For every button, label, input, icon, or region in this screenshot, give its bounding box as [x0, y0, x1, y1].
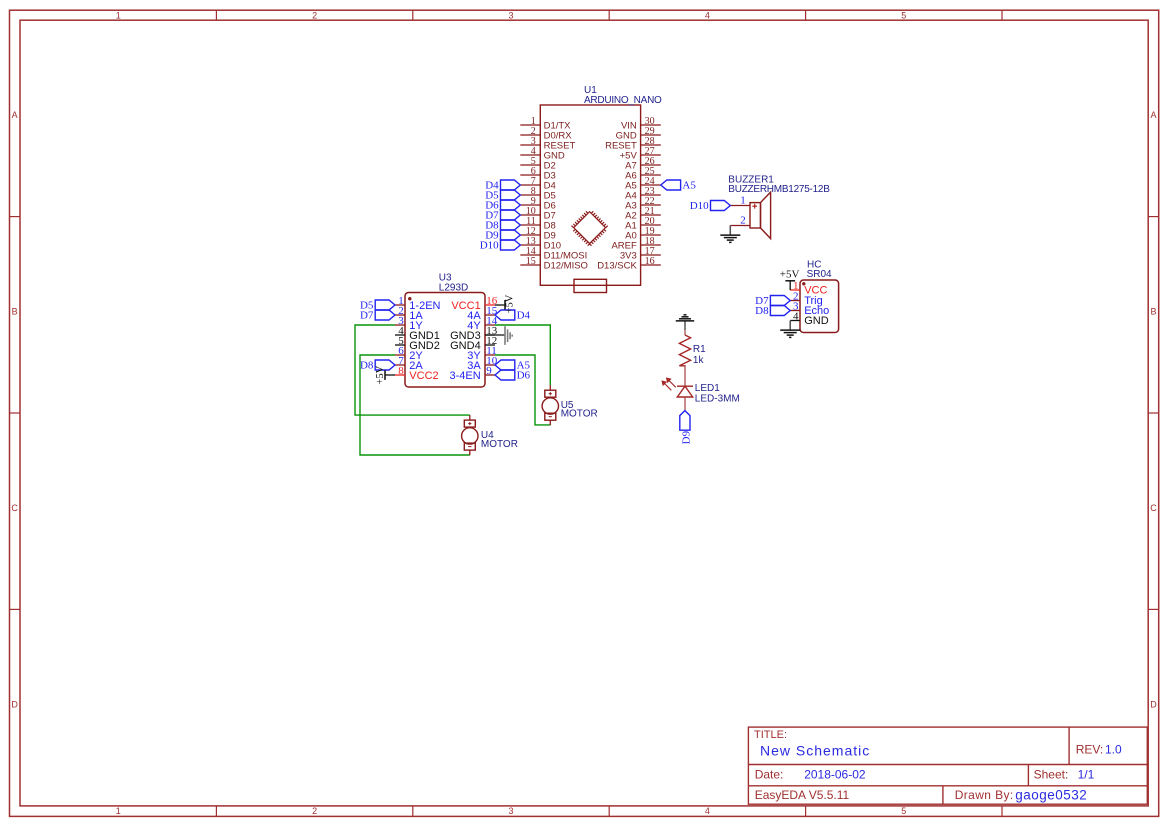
net flag A5 (U1 pin 24) — [661, 180, 681, 190]
U3 pin 6 2Y — [395, 354, 405, 356]
U1 pin 22 A3 — [641, 204, 661, 206]
svg-text:+5V: +5V — [375, 365, 386, 384]
LED1 emission arrows — [662, 378, 676, 390]
wire LED1 to D9 flag — [684, 397, 686, 411]
net flag D4 (U3 pin 15) — [495, 310, 515, 320]
svg-text:D10: D10 — [480, 240, 499, 252]
U1 pin 10 D7 — [520, 214, 540, 216]
motor U4 — [469, 415, 471, 420]
HC pin 3 Echo — [790, 310, 800, 312]
net flag D5 (U3 pin 1) — [375, 300, 395, 310]
svg-text:Drawn By:: Drawn By: — [955, 788, 1014, 802]
svg-text:D4: D4 — [517, 310, 531, 322]
U1 pin 23 A4 — [641, 194, 661, 196]
U1 pin 15 D12/MISO — [520, 264, 540, 266]
U3 pin 10 3A — [485, 364, 495, 366]
U1 pin 18 AREF — [641, 244, 661, 246]
net flag D4 (U1 pin 7) — [501, 180, 521, 190]
U1 pin 13 D10 — [520, 244, 540, 246]
svg-text:2: 2 — [312, 806, 317, 816]
svg-text:D: D — [11, 700, 18, 710]
net flag D10 (buzzer) — [711, 201, 731, 211]
wire U3 pin11 3Y to motor U5 - — [495, 355, 550, 425]
U1 pin 27 +5V — [641, 154, 661, 156]
U1 pin 7 D4 — [520, 184, 540, 186]
svg-text:EasyEDA V5.5.11: EasyEDA V5.5.11 — [755, 788, 850, 802]
U3 pin 7 2A — [395, 364, 405, 366]
U3 pin 16 VCC1 — [485, 304, 495, 306]
svg-text:D10: D10 — [690, 200, 709, 212]
net flag D7 (U3 pin 2) — [375, 310, 395, 320]
svg-text:2: 2 — [740, 215, 746, 227]
ground (buzzer) — [729, 226, 731, 236]
U1 pin 2 D0/RX — [520, 134, 540, 136]
U3 pin 11 3Y — [485, 354, 495, 356]
svg-text:A: A — [12, 110, 18, 120]
svg-text:gaoge0532: gaoge0532 — [1015, 787, 1087, 802]
svg-text:D: D — [1150, 700, 1157, 710]
wire ground to R1 — [684, 330, 686, 335]
HC pin 2 Trig — [790, 300, 800, 302]
U1 pin 11 D8 — [520, 224, 540, 226]
U1 pin 16 D13/SCK — [641, 264, 661, 266]
U1 pin 19 A0 — [641, 234, 661, 236]
U3 pin 15 4A — [485, 314, 495, 316]
U1 pin 6 D3 — [520, 174, 540, 176]
U1 pin 1 D1/TX — [520, 124, 540, 126]
buzzer plus mark — [752, 205, 757, 207]
net flag D9 (LED) — [680, 411, 690, 431]
ruler column ticks top — [215, 10, 217, 20]
svg-text:3-4EN: 3-4EN — [450, 370, 481, 382]
ruler row ticks left — [10, 216, 21, 218]
svg-text:2018-06-02: 2018-06-02 — [804, 768, 866, 782]
svg-text:D8: D8 — [360, 360, 374, 372]
svg-text:1: 1 — [740, 195, 746, 207]
resistor R1 — [679, 335, 690, 366]
ruler column ticks bottom — [215, 806, 217, 817]
svg-text:1.0: 1.0 — [1105, 743, 1122, 757]
svg-text:+5V: +5V — [780, 269, 800, 281]
net flag D5 (U1 pin 8) — [501, 190, 521, 200]
IC U1 ARDUINO_NANO body — [540, 105, 640, 285]
svg-text:1: 1 — [116, 10, 121, 20]
buzzer pin 2 — [730, 225, 750, 227]
U1 pin 29 GND — [641, 134, 661, 136]
svg-text:R1: R1 — [693, 344, 706, 355]
net flag D8 (U1 pin 11) — [501, 220, 521, 230]
net flag D10 (U1 pin 13) — [501, 240, 521, 250]
U3 pin 4 GND1 — [395, 334, 405, 336]
U1 pin 4 GND — [520, 154, 540, 156]
svg-text:B: B — [12, 307, 18, 317]
HC pin 4 GND — [790, 320, 800, 322]
net flag D7 (HC pin 2) — [770, 296, 790, 306]
svg-text:BUZZERHMB1275-12B: BUZZERHMB1275-12B — [728, 184, 830, 195]
U1 pin 17 3V3 — [641, 254, 661, 256]
svg-text:C: C — [1150, 503, 1157, 513]
svg-text:D8: D8 — [755, 305, 769, 317]
svg-text:B: B — [1150, 307, 1156, 317]
svg-text:TITLE:: TITLE: — [754, 729, 787, 741]
svg-text:1: 1 — [116, 806, 121, 816]
U1 pin 5 D2 — [520, 164, 540, 166]
svg-text:D6: D6 — [517, 370, 531, 382]
net flag D8 (HC pin 3) — [770, 306, 790, 316]
svg-text:LED-3MM: LED-3MM — [695, 394, 740, 405]
svg-text:15: 15 — [526, 256, 536, 267]
U1 pin 8 D5 — [520, 194, 540, 196]
svg-text:MOTOR: MOTOR — [561, 408, 598, 419]
svg-text:+5V: +5V — [504, 294, 515, 313]
sideways ground (U3 GND3/GND4) — [504, 326, 506, 345]
U3 pin 2 1A — [395, 314, 405, 316]
svg-text:Sheet:: Sheet: — [1034, 768, 1069, 782]
U1 pin 24 A5 — [641, 184, 661, 186]
svg-text:A: A — [1150, 110, 1156, 120]
svg-text:2: 2 — [312, 10, 317, 20]
svg-text:VCC2: VCC2 — [409, 370, 438, 382]
svg-text:REV:: REV: — [1076, 743, 1104, 757]
wire HC pin4 to ground — [789, 321, 791, 331]
svg-text:LED1: LED1 — [695, 383, 720, 394]
svg-text:1k: 1k — [693, 355, 705, 366]
svg-text:5: 5 — [901, 10, 906, 20]
svg-text:GND: GND — [804, 315, 829, 327]
buzzer BUZZER1 body — [750, 203, 761, 228]
U1 pin 25 A6 — [641, 174, 661, 176]
ruler row ticks right — [1148, 216, 1159, 218]
HC pin 1 VCC — [790, 289, 800, 291]
U3 pin 12 GND4 — [485, 344, 495, 346]
svg-text:Date:: Date: — [755, 768, 784, 782]
svg-text:D13/SCK: D13/SCK — [597, 260, 637, 271]
U3 pin 14 4Y — [485, 324, 495, 326]
svg-text:1/1: 1/1 — [1078, 768, 1095, 782]
svg-text:8: 8 — [398, 365, 404, 377]
svg-text:ARDUINO_NANO: ARDUINO_NANO — [584, 95, 662, 106]
svg-text:4: 4 — [705, 10, 710, 20]
svg-text:3: 3 — [508, 806, 513, 816]
U1 pin 3 RESET — [520, 144, 540, 146]
U1 pin 20 A1 — [641, 224, 661, 226]
svg-text:16: 16 — [645, 256, 655, 267]
U3 pin 8 VCC2 — [395, 374, 405, 376]
svg-text:A5: A5 — [682, 180, 696, 192]
title block — [748, 727, 1147, 804]
U3 pin 9 3-4EN — [485, 374, 495, 376]
svg-text:SR04: SR04 — [807, 269, 832, 280]
net flag D7 (U1 pin 10) — [501, 210, 521, 220]
U1 bottom connector rect — [574, 279, 607, 292]
U3 pin 1 1-2EN — [395, 304, 405, 306]
wire buzzer pin2 to ground — [729, 226, 731, 236]
svg-text:5: 5 — [901, 806, 906, 816]
net flag D8 (U3 pin 7) — [375, 360, 395, 370]
svg-text:D9: D9 — [681, 430, 693, 444]
U3 body — [405, 293, 485, 388]
net flag D6 (U1 pin 9) — [501, 200, 521, 210]
net flag D6 (U3 pin 9) — [495, 370, 515, 380]
U1 pin 9 D6 — [520, 204, 540, 206]
svg-text:4: 4 — [793, 310, 799, 322]
U3 pin 13 GND3 — [485, 334, 495, 336]
U1 pin 12 D9 — [520, 234, 540, 236]
U1 pin 30 VIN — [641, 124, 661, 126]
svg-text:D12/MISO: D12/MISO — [544, 260, 588, 271]
net flag A5 (U3 pin 10) — [495, 360, 515, 370]
svg-text:New Schematic: New Schematic — [760, 743, 870, 759]
buzzer pin 1 — [730, 205, 750, 207]
motor U5 — [549, 385, 551, 390]
U3 pin 3 1Y — [395, 324, 405, 326]
+5V net flag (HC pin 1) — [789, 281, 791, 290]
LED LED1 — [677, 385, 693, 387]
HC SR04 body — [800, 280, 839, 333]
svg-text:D7: D7 — [360, 310, 374, 322]
ground (above R1, inverted) — [684, 321, 686, 330]
U3 pin 5 GND2 — [395, 344, 405, 346]
U1 pin 14 D11/MOSI — [520, 254, 540, 256]
ground (HC SR04) — [789, 321, 791, 331]
U1 pin 28 RESET — [641, 144, 661, 146]
wire U3 pin14 4Y to motor U5 + — [495, 325, 550, 385]
wire U3 pin13 to sideways ground — [485, 334, 505, 336]
wire R1 to LED1 — [684, 366, 686, 386]
+5V net flag (U3 pin 16) — [495, 304, 505, 306]
U1 qfp chip glyph — [570, 208, 610, 248]
net flag D9 (U1 pin 12) — [501, 230, 521, 240]
svg-text:4: 4 — [705, 806, 710, 816]
wire U3 pin6 2Y to motor U4 - — [360, 355, 470, 455]
U1 pin 26 A7 — [641, 164, 661, 166]
svg-text:C: C — [11, 503, 18, 513]
+5V net flag (U3 pin 8) — [385, 374, 395, 376]
wire U3 pin3 1Y to motor U4 + — [355, 325, 470, 415]
svg-text:9: 9 — [486, 365, 492, 377]
U1 pin 21 A2 — [641, 214, 661, 216]
svg-text:3: 3 — [508, 10, 513, 20]
svg-text:MOTOR: MOTOR — [481, 439, 518, 450]
